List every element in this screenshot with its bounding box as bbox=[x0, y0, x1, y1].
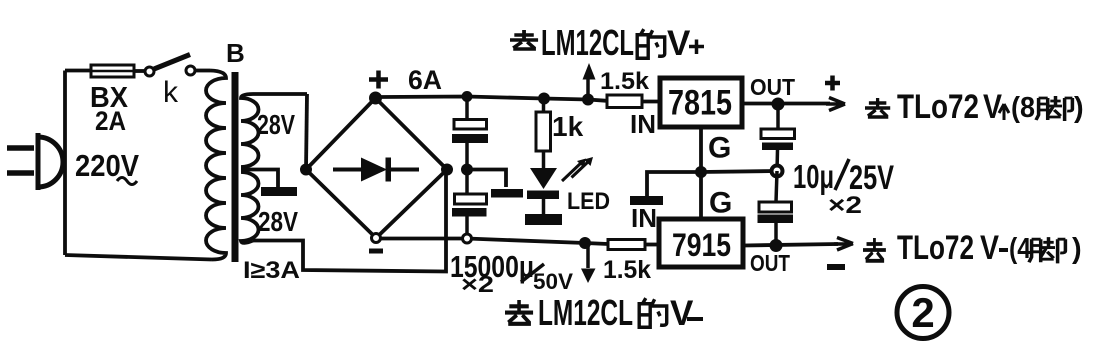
ground bar regulators bbox=[630, 196, 663, 205]
wire 7915 output rail bbox=[743, 244, 838, 246]
LED D2 bbox=[527, 168, 559, 214]
label qu TLo72 V+ (8 pin) bbox=[865, 88, 1084, 126]
node R1 top bbox=[538, 93, 550, 105]
node bridge right bbox=[441, 164, 453, 176]
svg-text:OUT: OUT bbox=[750, 250, 790, 276]
svg-text:28V: 28V bbox=[257, 109, 295, 140]
wire primary loop top segment to fuse bbox=[65, 69, 91, 73]
label slash bbox=[521, 264, 544, 282]
node C2 bottom junction open bbox=[463, 234, 472, 243]
resistor R1 1k bbox=[536, 99, 551, 169]
node V+ arrow junction bbox=[582, 94, 594, 106]
node capacitor midpoint bbox=[461, 164, 473, 176]
node bridge top (+) bbox=[369, 92, 382, 105]
node out- junction bbox=[770, 239, 783, 252]
svg-text:2: 2 bbox=[911, 289, 934, 336]
switch K bbox=[145, 55, 195, 77]
svg-text:LM12CL: LM12CL bbox=[541, 22, 634, 63]
wire negative rail bbox=[380, 239, 608, 245]
svg-text:LM12CL: LM12CL bbox=[538, 292, 633, 333]
node C1 top junction bbox=[462, 91, 473, 102]
wire primary loop left vertical bbox=[63, 71, 67, 256]
svg-text:1k: 1k bbox=[552, 111, 584, 142]
label - out bbox=[827, 264, 845, 270]
transformer T1 secondary upper winding bbox=[241, 94, 307, 167]
transformer T1 primary winding bbox=[206, 71, 226, 260]
capacitor C2 15000u lower bbox=[452, 175, 487, 238]
arrow to LM12CL V- bbox=[581, 243, 596, 283]
arrow out+ bbox=[826, 98, 845, 111]
svg-text:k: k bbox=[163, 76, 179, 109]
svg-text:(4: (4 bbox=[1009, 233, 1031, 265]
svg-text:V: V bbox=[670, 294, 694, 333]
svg-text:V: V bbox=[980, 229, 999, 267]
svg-text:B: B bbox=[226, 38, 245, 68]
svg-text:G: G bbox=[709, 187, 732, 220]
LED light arrows bbox=[562, 157, 593, 181]
node V- arrow junction bbox=[579, 237, 591, 249]
resistor R2 1.5k top bbox=[607, 95, 642, 108]
wire cap midpoint to ground stub bbox=[467, 170, 506, 188]
arrow to LM12CL V+ bbox=[583, 63, 596, 100]
label qu LM12CL de V- bottom bbox=[505, 292, 703, 333]
regulator U1 7815 bbox=[660, 78, 742, 127]
svg-text:1.5k: 1.5k bbox=[600, 68, 650, 95]
wire R3 to 7915 bbox=[645, 243, 659, 247]
svg-text:7815: 7815 bbox=[668, 84, 732, 123]
transformer T1 core bbox=[232, 72, 239, 262]
label qu TLo72 V- (4 pin) bbox=[863, 229, 1082, 267]
label - bridge bbox=[369, 249, 383, 254]
svg-text:1.5k: 1.5k bbox=[603, 256, 651, 284]
wire fuse to switch bbox=[134, 69, 145, 73]
svg-text:220V: 220V bbox=[75, 148, 139, 183]
capacitor C1 15000u upper bbox=[452, 97, 488, 170]
svg-text:×2: ×2 bbox=[828, 192, 862, 219]
svg-text:10μ: 10μ bbox=[793, 158, 834, 195]
svg-text:): ) bbox=[1072, 233, 1082, 265]
label qu LM12CL de V+ top bbox=[510, 22, 704, 63]
wire positive rail bbox=[380, 97, 607, 101]
svg-text:6A: 6A bbox=[408, 65, 442, 95]
fuse BX 2A bbox=[91, 65, 134, 77]
wire G junction to output caps midpoint bbox=[701, 171, 777, 172]
svg-text:G: G bbox=[708, 132, 731, 165]
capacitor C4 10u bottom bbox=[758, 171, 794, 246]
wire secondary top to bridge left corner bbox=[306, 94, 307, 170]
wire switch to transformer primary bbox=[195, 69, 210, 73]
AC plug P1 bbox=[7, 133, 63, 190]
wire G to ground bar bbox=[647, 172, 701, 196]
ground bar cap midpoint bbox=[491, 189, 523, 198]
svg-text:×2: ×2 bbox=[461, 271, 494, 297]
svg-text:2A: 2A bbox=[95, 106, 126, 136]
bridge internal diode bbox=[333, 158, 419, 182]
svg-text:LED: LED bbox=[567, 188, 610, 215]
svg-text:28V: 28V bbox=[258, 206, 298, 237]
capacitor C3 10u top bbox=[761, 104, 795, 171]
wire secondary bottom AC return bbox=[253, 170, 446, 272]
wire primary loop bottom segment bbox=[65, 255, 212, 260]
node bridge bottom (-) open bbox=[372, 234, 381, 243]
arrow out- bbox=[834, 238, 853, 251]
resistor R3 1.5k bottom bbox=[608, 240, 645, 250]
svg-text:(8: (8 bbox=[1011, 92, 1035, 124]
figure number circled 2 bbox=[897, 287, 949, 339]
bridge rectifier D1 diamond bbox=[306, 98, 447, 238]
wire R2 to 7815 bbox=[642, 100, 660, 104]
svg-text:50V: 50V bbox=[533, 269, 573, 294]
svg-text:TLo72: TLo72 bbox=[897, 88, 979, 126]
svg-text:TLo72: TLo72 bbox=[897, 229, 974, 267]
node output caps midpoint bbox=[772, 166, 783, 177]
ground bar center tap bbox=[261, 187, 297, 196]
svg-text:): ) bbox=[1074, 92, 1084, 124]
node G junction bbox=[695, 166, 707, 178]
wire G common vertical bbox=[699, 127, 703, 219]
node out+ junction bbox=[772, 98, 785, 111]
ground bar LED bbox=[525, 214, 562, 225]
svg-text:OUT: OUT bbox=[750, 74, 795, 100]
svg-text:IN: IN bbox=[631, 203, 657, 233]
label ~ under 220V bbox=[117, 178, 137, 185]
svg-text:V: V bbox=[667, 24, 691, 63]
transformer T1 secondary lower winding bbox=[241, 172, 259, 243]
svg-text:7915: 7915 bbox=[672, 227, 731, 263]
svg-text:IN: IN bbox=[630, 109, 656, 139]
regulator U2 7915 bbox=[659, 219, 743, 267]
node bridge left bbox=[300, 164, 312, 176]
svg-text:I≥3A: I≥3A bbox=[243, 257, 300, 284]
label + bridge bbox=[369, 71, 388, 89]
wire secondary center tap bbox=[241, 170, 278, 188]
svg-text:V: V bbox=[983, 88, 1002, 126]
wire 7815 output rail bbox=[742, 102, 830, 106]
label + out bbox=[825, 76, 840, 91]
